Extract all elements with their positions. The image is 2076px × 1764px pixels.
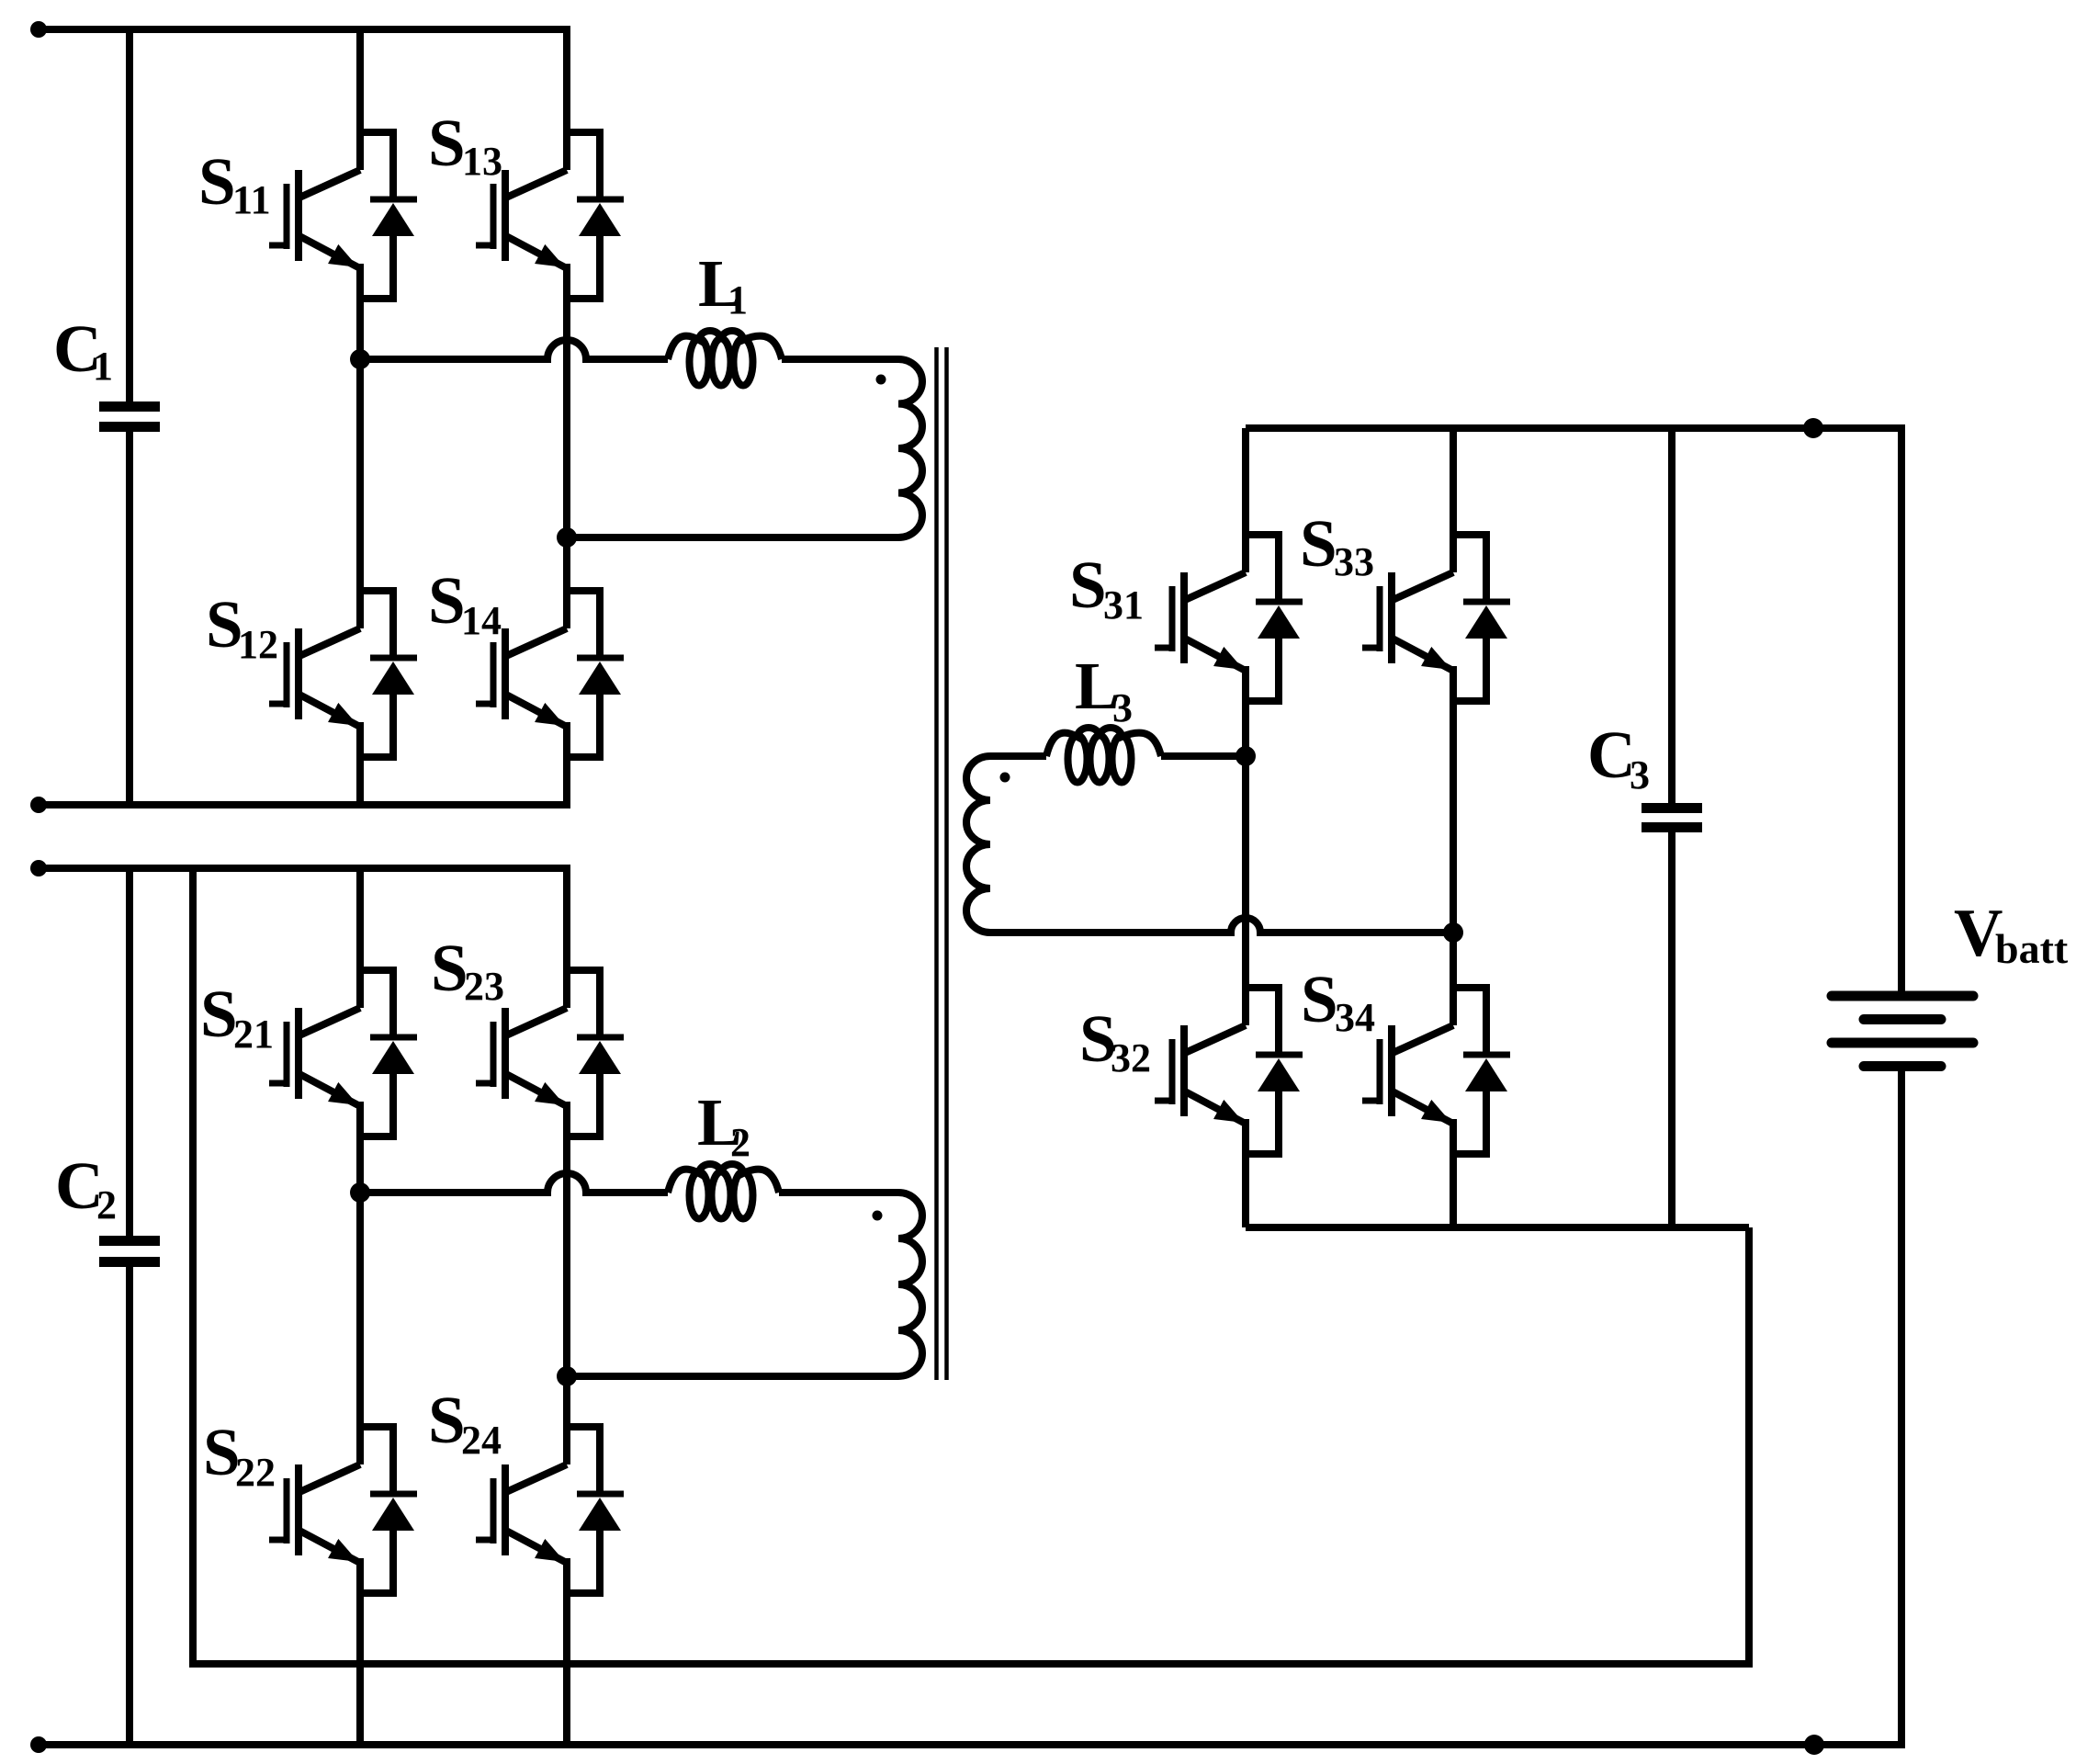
- diode of S12 (antiparallel): [360, 591, 417, 757]
- wire winding 3 top to inductor L3: [1012, 752, 1046, 760]
- svg-text:S: S: [1300, 506, 1337, 581]
- svg-text:11: 11: [232, 177, 271, 222]
- svg-text:21: 21: [233, 1012, 274, 1057]
- wire L2 to transformer winding 2: [779, 1189, 869, 1196]
- wire leg S21/S22 upper (collector rail): [356, 868, 364, 1008]
- node terminal V2-: [30, 1736, 47, 1753]
- transformer core (double bar): [934, 347, 939, 1380]
- svg-text:S: S: [198, 144, 236, 219]
- node C (midpoint S21/S22): [350, 1182, 370, 1203]
- svg-text:31: 31: [1103, 582, 1144, 628]
- transistor S33 (IGBT): [1362, 572, 1453, 670]
- wire winding 1 bottom to node B: [567, 534, 869, 541]
- wire node E to S34 collector: [1450, 933, 1457, 1025]
- wire S12 emitter to bottom rail: [356, 722, 364, 805]
- wire S24 emitter to bottom rail: [563, 1558, 570, 1745]
- wire S33 emitter to node E: [1450, 666, 1457, 933]
- wire winding 2 bottom to node D: [567, 1373, 869, 1380]
- wire L1 to transformer winding 1: [782, 356, 869, 363]
- diode of S11 (antiparallel): [360, 132, 417, 299]
- transistor S22 (IGBT): [269, 1464, 360, 1562]
- diode of S22 (antiparallel): [360, 1427, 417, 1593]
- svg-text:2: 2: [730, 1120, 750, 1165]
- wire L3 to node F: [1161, 752, 1246, 760]
- wire node F to S32 collector: [1242, 756, 1249, 1025]
- node terminal V1-: [30, 797, 47, 813]
- wire leg S11/S12 upper (collector rail): [356, 29, 364, 170]
- svg-text:22: 22: [235, 1450, 276, 1495]
- transistor S32 (IGBT): [1155, 1025, 1246, 1123]
- inductor L3: [1046, 728, 1161, 783]
- wire S21 emitter to node C: [356, 1102, 364, 1193]
- diode of S23 (antiparallel): [567, 970, 624, 1136]
- wire winding 3 bottom to node E (with hop over leg S31/S32): [1012, 918, 1453, 933]
- transformer winding W1 (primary 1): [869, 359, 922, 537]
- wire node B to S14 collector: [563, 537, 570, 628]
- node B (midpoint S13/S14): [557, 527, 577, 548]
- svg-text:S: S: [428, 106, 466, 180]
- svg-text:32: 32: [1111, 1035, 1151, 1080]
- transistor S31 (IGBT): [1155, 572, 1246, 670]
- svg-text:23: 23: [464, 964, 504, 1009]
- svg-text:1: 1: [93, 344, 113, 389]
- svg-text:13: 13: [462, 139, 502, 184]
- node D (midpoint S23/S24): [557, 1366, 577, 1386]
- wire node C to inductor L2 (with hop over leg S23/S24): [360, 1173, 668, 1193]
- wire S11 emitter to node A: [356, 264, 364, 359]
- wire node C to S22 collector: [356, 1193, 364, 1464]
- wire bottom rail (V2- / battery negative): [39, 1741, 1905, 1748]
- svg-text:3: 3: [1630, 752, 1650, 797]
- transistor S23 (IGBT): [476, 1008, 567, 1105]
- transistor S11 (IGBT): [269, 170, 360, 267]
- svg-text:1: 1: [728, 277, 748, 322]
- svg-text:2: 2: [96, 1182, 117, 1227]
- wire S22 emitter to bottom rail: [356, 1558, 364, 1745]
- node terminal V1+: [30, 21, 47, 38]
- transformer winding W3 (secondary): [966, 756, 1012, 933]
- capacitor C2: [99, 868, 160, 1745]
- node E (midpoint S33/S34): [1443, 922, 1463, 943]
- svg-text:batt: batt: [1995, 925, 2069, 972]
- wire top rail of bridge 2 (V2+): [39, 865, 570, 872]
- diode of S34 (antiparallel): [1453, 988, 1510, 1154]
- svg-text:S: S: [1301, 962, 1338, 1036]
- svg-text:C: C: [1587, 718, 1636, 792]
- wire node A to S12 collector: [356, 359, 364, 628]
- inductor L1: [668, 331, 782, 386]
- transistor S21 (IGBT): [269, 1008, 360, 1105]
- wire S13 emitter to node B: [563, 264, 570, 537]
- node battery positive tap: [1803, 418, 1823, 438]
- svg-text:S: S: [428, 563, 466, 638]
- polarity dot winding 3: [1000, 773, 1010, 783]
- svg-text:S: S: [431, 931, 468, 1005]
- diode of S14 (antiparallel): [567, 591, 624, 757]
- polarity dot winding 2: [873, 1211, 883, 1221]
- wire top rail of bridge 3 (to battery +): [1246, 428, 1901, 991]
- wire riser bridge2+ to bridge3- (left segment down): [193, 868, 1749, 1664]
- capacitor C1: [99, 29, 160, 805]
- wire bottom rail of bridge 1 (V1-): [39, 801, 570, 808]
- wire leg S23/S24 upper (collector rail): [563, 868, 570, 1008]
- svg-text:S: S: [428, 1383, 466, 1457]
- transformer winding W2 (primary 2): [869, 1193, 922, 1376]
- wire leg S33/S34 upper (collector rail): [1450, 428, 1457, 572]
- wire leg S13/S14 upper (collector rail): [563, 29, 570, 170]
- polarity dot winding 1: [876, 375, 886, 385]
- transistor S12 (IGBT): [269, 628, 360, 726]
- diode of S31 (antiparallel): [1246, 535, 1303, 701]
- wire S32 emitter to bottom rail: [1242, 1119, 1249, 1227]
- wire top rail of bridge 1 (V1+): [39, 26, 570, 33]
- transistor S34 (IGBT): [1362, 1025, 1453, 1123]
- svg-text:S: S: [200, 977, 238, 1051]
- diode of S24 (antiparallel): [567, 1427, 624, 1593]
- diode of S13 (antiparallel): [567, 132, 624, 299]
- wire node A to inductor L1 (with hop over leg S13/S14): [360, 340, 668, 359]
- svg-text:12: 12: [238, 622, 278, 667]
- capacitor C3: [1642, 428, 1702, 1227]
- svg-text:14: 14: [461, 598, 502, 643]
- svg-text:3: 3: [1112, 685, 1133, 730]
- wire S14 emitter to bottom rail: [563, 722, 570, 805]
- wire S23 emitter to node D: [563, 1102, 570, 1376]
- diode of S21 (antiparallel): [360, 970, 417, 1136]
- wire bottom rail of bridge 3: [1246, 1224, 1749, 1231]
- wire S34 emitter to bottom rail: [1450, 1119, 1457, 1227]
- node A (midpoint S11/S12): [350, 349, 370, 369]
- node F (midpoint S31/S32): [1235, 746, 1256, 766]
- inductor L2: [668, 1164, 779, 1219]
- diode of S33 (antiparallel): [1453, 535, 1510, 701]
- transistor S13 (IGBT): [476, 170, 567, 267]
- svg-text:24: 24: [461, 1418, 502, 1463]
- transistor S24 (IGBT): [476, 1464, 567, 1562]
- svg-text:S: S: [1069, 548, 1107, 622]
- wire node D to S24 collector: [563, 1376, 570, 1464]
- battery Vbatt: [1832, 996, 1973, 1745]
- node battery negative tap: [1804, 1735, 1824, 1755]
- wire leg S31/S32 upper (collector rail): [1242, 428, 1249, 572]
- wire S31 emitter to node F: [1242, 666, 1249, 756]
- svg-text:33: 33: [1334, 539, 1374, 584]
- diode of S32 (antiparallel): [1246, 988, 1303, 1154]
- svg-text:34: 34: [1335, 995, 1375, 1040]
- transistor S14 (IGBT): [476, 628, 567, 726]
- node terminal V2+: [30, 860, 47, 876]
